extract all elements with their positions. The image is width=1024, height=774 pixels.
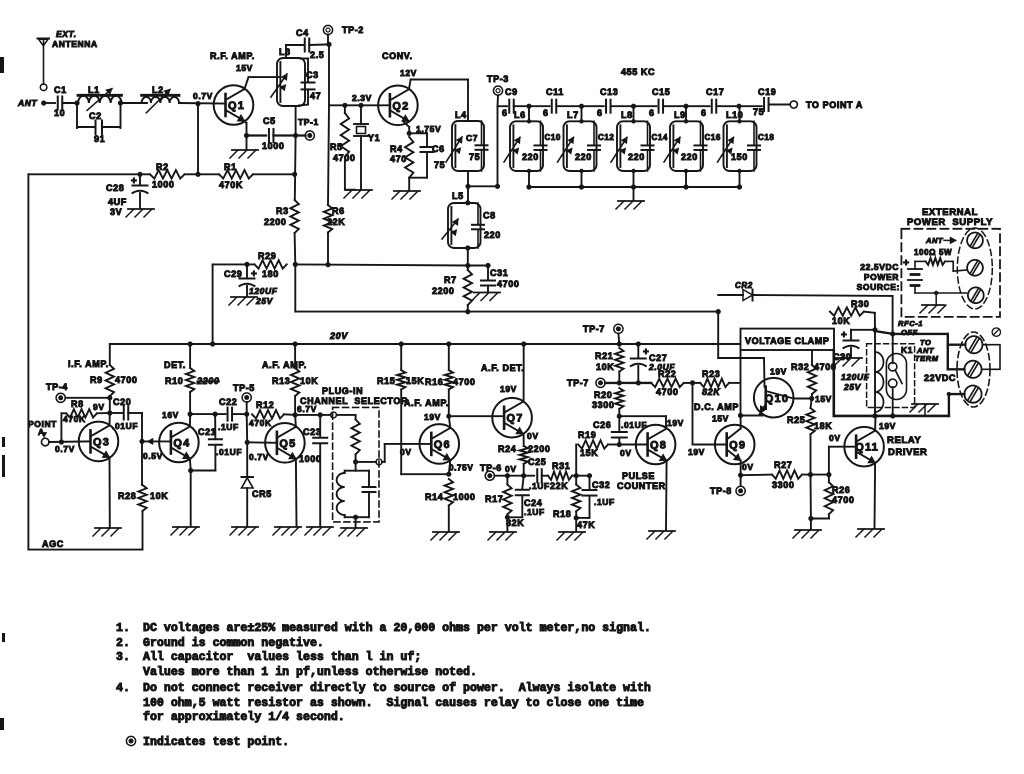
- svg-text:10K: 10K: [300, 376, 318, 386]
- svg-text:15V: 15V: [712, 414, 729, 424]
- svg-text:K1: K1: [901, 345, 913, 355]
- terminal - (supply): [968, 287, 984, 303]
- resistor R6: [328, 105, 329, 205]
- svg-text:470K: 470K: [63, 414, 86, 424]
- tank L5 / capacitor C8: [448, 203, 481, 248]
- svg-text:10K: 10K: [596, 362, 614, 372]
- test point TP-5: [242, 393, 251, 402]
- svg-text:R20: R20: [594, 390, 612, 400]
- test point legend: [126, 736, 135, 745]
- resistor R10: [189, 344, 191, 368]
- resistor R25: [811, 399, 812, 409]
- svg-text:Do not connect receiver direct: Do not connect receiver directly to sour…: [143, 682, 651, 695]
- svg-text:Q7: Q7: [507, 413, 524, 425]
- capacitor C26: [618, 416, 620, 430]
- svg-text:19V: 19V: [500, 384, 517, 394]
- ground CR5: [232, 526, 258, 528]
- capacitor C17: [711, 100, 713, 113]
- svg-text:.1UF: .1UF: [594, 497, 615, 507]
- capacitor C13: [605, 100, 607, 113]
- capacitor C24: [522, 476, 523, 489]
- svg-text:.1UF: .1UF: [529, 481, 550, 491]
- node Q8 base: [617, 442, 622, 447]
- wire node down to R2 rail: [197, 104, 199, 175]
- node emitter/C5: [244, 133, 249, 138]
- tank L10 / capacitor C18: [724, 121, 757, 171]
- wire TP-2 down to Q2 base line: [327, 35, 329, 45]
- svg-text:TERM: TERM: [915, 354, 939, 363]
- resistor R15: [400, 344, 402, 370]
- capacitor C6 parallel R4: [409, 132, 427, 134]
- svg-text:R29: R29: [258, 251, 276, 261]
- svg-text:4700: 4700: [656, 387, 678, 397]
- svg-text:OFF: OFF: [901, 328, 918, 337]
- svg-text:R13: R13: [272, 376, 290, 386]
- node Y1 top: [358, 103, 363, 108]
- svg-text:.1UF: .1UF: [524, 507, 545, 517]
- resistor R8: [61, 412, 66, 414]
- node 9V: [107, 410, 112, 415]
- svg-text:0V: 0V: [505, 464, 517, 474]
- wire switch bottom down: [892, 387, 894, 416]
- node L6 top: [526, 104, 531, 109]
- svg-text:2200: 2200: [528, 444, 550, 454]
- node R25 bottom: [808, 472, 813, 477]
- node Q6 collector 19V: [446, 414, 451, 419]
- svg-text:22K: 22K: [327, 217, 345, 227]
- svg-text:CR5: CR5: [252, 489, 272, 499]
- svg-text:L7: L7: [567, 110, 579, 120]
- capacitor C22: [227, 408, 229, 421]
- svg-text:120UF: 120UF: [249, 286, 278, 296]
- svg-text:Q9: Q9: [729, 440, 746, 452]
- svg-text:1.: 1.: [116, 622, 130, 635]
- svg-text:220: 220: [575, 152, 592, 162]
- inductor L1: [78, 96, 122, 103]
- test point TP-6: [485, 471, 494, 480]
- node L4/L5/IF: [465, 184, 470, 189]
- selector resistor: [337, 414, 356, 416]
- svg-text:R22: R22: [658, 369, 676, 379]
- svg-text:22K: 22K: [550, 481, 568, 491]
- svg-text:3300: 3300: [772, 480, 794, 490]
- svg-text:TP-7: TP-7: [583, 324, 605, 334]
- svg-text:0V: 0V: [527, 431, 539, 441]
- node R6 bottom: [325, 262, 330, 267]
- svg-text:470K: 470K: [219, 180, 243, 190]
- transistor Q9: [715, 425, 755, 465]
- svg-text:TP-3: TP-3: [487, 74, 509, 84]
- ground Q11: [858, 528, 884, 530]
- wire R1 to R3 column: [253, 173, 295, 175]
- wire feed line y265: [295, 264, 468, 265]
- svg-text:R32: R32: [791, 362, 809, 372]
- node external ground: [934, 291, 938, 295]
- svg-text:0.5V: 0.5V: [143, 451, 163, 461]
- svg-text:Q1: Q1: [228, 100, 245, 112]
- svg-text:L4: L4: [455, 110, 467, 120]
- svg-text:220: 220: [522, 152, 539, 162]
- svg-text:L10: L10: [726, 110, 743, 120]
- 20V rail: [110, 343, 741, 345]
- svg-text:C22: C22: [219, 397, 237, 407]
- svg-text:ANT: ANT: [17, 98, 37, 108]
- svg-text:R28: R28: [118, 491, 136, 501]
- wire to IF strip input: [468, 185, 498, 187]
- wire terminal1-terminal2 link: [947, 345, 949, 370]
- svg-text:C11: C11: [546, 87, 564, 97]
- resistor R18: [575, 476, 577, 485]
- node rail C27: [636, 341, 641, 346]
- wire Q9 emitter: [740, 461, 742, 476]
- selector tank coil: [355, 462, 357, 471]
- svg-text:22VDC: 22VDC: [924, 373, 956, 383]
- capacitor C11: [551, 100, 553, 113]
- svg-text:3.: 3.: [116, 651, 130, 664]
- ground Q1: [232, 149, 258, 151]
- ground selector: [341, 527, 367, 529]
- wire Q6 emitter: [449, 460, 451, 474]
- node L5/R7: [465, 263, 470, 268]
- transistor Q10: [754, 378, 794, 418]
- ground relay bus: [912, 403, 938, 405]
- diode CR2: [718, 294, 743, 296]
- svg-text:Q11: Q11: [855, 442, 879, 454]
- wire battery minus: [915, 292, 967, 294]
- svg-text:19V: 19V: [879, 421, 896, 431]
- svg-text:R10: R10: [165, 376, 183, 386]
- node 16V: [188, 412, 193, 417]
- transistor Q3: [79, 422, 119, 462]
- ground Q8: [649, 530, 675, 532]
- capacitor C32: [589, 476, 591, 489]
- svg-text:RELAY: RELAY: [887, 435, 921, 446]
- node L1 left: [74, 100, 79, 105]
- test point TP-7 upper: [614, 324, 623, 333]
- svg-text:DET.: DET.: [164, 360, 186, 370]
- svg-text:3300: 3300: [592, 400, 614, 410]
- svg-text:2.5: 2.5: [310, 50, 324, 60]
- capacitor C5: [268, 129, 270, 142]
- node coil bottom: [872, 413, 877, 418]
- wire Q10 emitter to Q9 collector: [741, 415, 763, 417]
- svg-text:POWER: POWER: [864, 272, 899, 282]
- node rail R21: [617, 341, 622, 346]
- node R21 bottom: [617, 380, 622, 385]
- node L3 bottom: [293, 133, 298, 138]
- svg-text:AGC: AGC: [42, 539, 64, 549]
- svg-text:R2: R2: [156, 162, 169, 172]
- node C27 bottom: [636, 380, 641, 385]
- svg-text:220: 220: [681, 152, 698, 162]
- ground R17/C24: [490, 531, 516, 533]
- transistor Q11: [844, 427, 884, 467]
- svg-text:20V: 20V: [329, 331, 348, 341]
- wire Q3 emitter to ground: [109, 457, 111, 527]
- transistor Q5: [265, 423, 305, 463]
- svg-text:A.F. AMP.: A.F. AMP.: [262, 360, 307, 370]
- ground Q6/R14: [433, 531, 459, 533]
- wire C5 to TP-1: [273, 134, 305, 136]
- resistor R28: [141, 441, 143, 485]
- ground Q4: [173, 526, 199, 528]
- svg-text:C10: C10: [545, 133, 561, 142]
- svg-text:R6: R6: [332, 206, 345, 216]
- svg-text:R31: R31: [552, 461, 570, 471]
- test point TP-8: [740, 475, 742, 486]
- svg-text:455 KC: 455 KC: [621, 67, 655, 77]
- capacitor C30: [851, 329, 875, 331]
- wire Q10 collector to R32 column: [793, 398, 811, 400]
- svg-text:CR2: CR2: [735, 281, 753, 290]
- screw symbol: [992, 328, 1000, 336]
- voltage clamp box: [741, 329, 835, 350]
- svg-text:15K: 15K: [406, 376, 424, 386]
- node Q5 base: [245, 440, 250, 445]
- transistor Q8: [636, 425, 676, 465]
- ground C30: [836, 357, 862, 359]
- ground C28: [128, 208, 154, 210]
- svg-text:0.7V: 0.7V: [55, 444, 75, 454]
- wire R18 bottom to ground: [575, 518, 577, 531]
- svg-text:C7: C7: [466, 133, 478, 143]
- svg-text:C25: C25: [528, 457, 546, 467]
- node C32 top: [587, 473, 592, 478]
- svg-text:1000: 1000: [262, 141, 284, 151]
- tank L9 / capacitor C16: [670, 121, 703, 171]
- wire CR2 right down to relay node: [892, 296, 894, 334]
- resistor R29: [213, 263, 255, 265]
- svg-text:9V: 9V: [93, 402, 105, 412]
- capacitor C9: [508, 100, 510, 113]
- terminal POINT A: [41, 438, 49, 446]
- svg-text:120UF: 120UF: [841, 372, 870, 382]
- wire Q6 collector: [449, 416, 451, 428]
- wire Q11 collector 19V: [874, 416, 876, 431]
- resistor R3: [294, 136, 297, 201]
- wire to C5: [247, 134, 267, 136]
- svg-text:15V: 15V: [815, 394, 832, 404]
- svg-text:4700: 4700: [115, 375, 137, 385]
- transistor Q4: [159, 423, 199, 463]
- svg-text:R18: R18: [553, 509, 571, 519]
- svg-text:0.7V: 0.7V: [193, 91, 213, 101]
- resistor R19: [578, 440, 608, 448]
- wire Q1 collector to L3: [245, 77, 249, 89]
- resistor R22: [651, 379, 684, 387]
- wire R15 bottom to emitter node: [401, 473, 449, 475]
- svg-text:L5: L5: [452, 191, 464, 201]
- node 15V R32: [809, 396, 814, 401]
- svg-text:C12: C12: [598, 133, 614, 142]
- ground Q2/R4: [394, 190, 420, 192]
- svg-text:R5: R5: [330, 142, 343, 152]
- relay K1 box: [867, 344, 915, 408]
- svg-text:L6: L6: [514, 110, 526, 120]
- svg-text:2.: 2.: [116, 637, 130, 650]
- svg-text:75: 75: [753, 107, 764, 117]
- resistor R9: [109, 344, 111, 365]
- node C20/R28: [139, 439, 144, 444]
- wire Q9 base riser: [692, 383, 694, 445]
- resistor R32: [811, 350, 813, 365]
- wire C1 to L1: [63, 102, 78, 104]
- series resistor 100 ohm: [926, 258, 945, 265]
- svg-text:TP-2: TP-2: [342, 25, 364, 35]
- wire Q10 base from B+: [717, 312, 719, 358]
- svg-text:for approximately 1/4 second.: for approximately 1/4 second.: [143, 711, 345, 724]
- svg-text:C20: C20: [113, 397, 131, 407]
- svg-text:0.7V: 0.7V: [249, 452, 269, 462]
- svg-text:R17: R17: [485, 494, 503, 504]
- node R17 top: [505, 473, 510, 478]
- svg-text:Q2: Q2: [392, 100, 409, 112]
- svg-text:POWER SUPPLY: POWER SUPPLY: [907, 217, 993, 228]
- node R22/R23/Q9-base: [690, 380, 695, 385]
- svg-text:47: 47: [310, 91, 321, 101]
- wire R8 left to POINT A wire: [60, 413, 62, 442]
- ground R25/R26: [795, 529, 821, 531]
- node R29 right: [293, 262, 298, 267]
- antenna (EXT): [38, 38, 50, 40]
- svg-text:TP-4: TP-4: [46, 382, 68, 392]
- wire Q10 emitter to node: [760, 415, 763, 416]
- svg-text:.01UF: .01UF: [112, 421, 138, 431]
- resistor R5: [344, 105, 346, 113]
- capacitor C15: [658, 100, 660, 113]
- jumper terminal1 to terminal2: [982, 345, 1000, 370]
- capacitor C21: [214, 414, 216, 438]
- test point TP-4: [56, 393, 65, 402]
- capacitor C23: [319, 415, 321, 437]
- svg-text:Q6: Q6: [434, 439, 451, 451]
- node C4/TP-2: [326, 42, 331, 47]
- AGC column: [27, 174, 29, 549]
- tank L4 / capacitor C7: [452, 121, 484, 171]
- test point TP-2: [323, 25, 332, 34]
- svg-text:2200: 2200: [196, 376, 219, 386]
- node R5 top: [342, 103, 347, 108]
- svg-text:TP-5: TP-5: [233, 383, 255, 393]
- transistor Q7: [492, 398, 532, 438]
- svg-text:47K: 47K: [577, 520, 595, 530]
- tank L3: [277, 58, 305, 106]
- node 0.75V: [446, 472, 451, 477]
- svg-text:470K: 470K: [249, 418, 272, 428]
- svg-text:Indicates test point.: Indicates test point.: [143, 736, 289, 749]
- resistor R12: [252, 410, 284, 418]
- node B+ junction: [716, 309, 721, 314]
- svg-text:1000: 1000: [299, 454, 321, 464]
- svg-text:6: 6: [502, 108, 508, 118]
- svg-text:ANTENNA: ANTENNA: [52, 39, 98, 49]
- node Q1 base / R2 branch: [195, 101, 200, 106]
- svg-text:R24: R24: [498, 444, 516, 454]
- svg-text:TP-1: TP-1: [298, 117, 319, 127]
- svg-text:82K: 82K: [702, 387, 721, 397]
- wire Q5 collector: [294, 415, 297, 427]
- svg-text:C31: C31: [490, 268, 508, 278]
- wire Q9 collector: [740, 416, 742, 429]
- capacitor C1: [57, 97, 59, 110]
- wire Q5 emitter to ground: [295, 459, 298, 526]
- node L10 top: [736, 104, 741, 109]
- node C22/R12/CR5: [244, 412, 249, 417]
- resistor R4: [405, 137, 413, 178]
- resistor R27: [741, 474, 772, 477]
- wire R17 bottom to ground: [506, 517, 508, 531]
- svg-text:L8: L8: [621, 110, 633, 120]
- scan mark top-left: [0, 57, 4, 73]
- svg-text:19V: 19V: [688, 447, 705, 457]
- wire R30 to junction: [874, 313, 876, 330]
- svg-text:75: 75: [434, 160, 445, 170]
- svg-text:R27: R27: [774, 460, 792, 470]
- svg-text:C1: C1: [54, 85, 67, 95]
- wire R20 node to Q8 collector: [619, 415, 666, 417]
- ground C31: [474, 292, 500, 294]
- svg-text:470: 470: [390, 154, 407, 164]
- relay K1 switch: [886, 354, 906, 400]
- wire L2 to Q1 base: [179, 102, 226, 105]
- ground external: [922, 304, 944, 306]
- svg-text:6: 6: [543, 108, 549, 118]
- svg-text:15K: 15K: [580, 448, 598, 458]
- wire L4 bottom to L5: [467, 171, 469, 203]
- wire 16V node to C22: [190, 413, 225, 415]
- svg-text:100Ω 5W: 100Ω 5W: [914, 248, 952, 257]
- svg-text:+: +: [841, 330, 847, 341]
- dashed oval supply terminals: [957, 228, 992, 309]
- resistor R31: [548, 472, 572, 480]
- svg-text:16V: 16V: [162, 410, 179, 420]
- capacitor C19: [763, 98, 765, 111]
- svg-text:25V: 25V: [843, 382, 862, 392]
- connector pin 1: [331, 412, 337, 418]
- resistor R7: [467, 266, 469, 271]
- svg-text:R26: R26: [832, 485, 850, 495]
- svg-text:C26: C26: [593, 420, 611, 430]
- node switch bottom: [890, 413, 895, 418]
- svg-text:DC voltages are±25% measured w: DC voltages are±25% measured with a 20,0…: [143, 622, 651, 635]
- svg-text:Ground is common negative.: Ground is common negative.: [143, 637, 324, 650]
- resistor R26: [828, 475, 830, 483]
- node 6.7V: [293, 412, 298, 417]
- svg-text:C19: C19: [758, 87, 776, 97]
- ground IF strip: [633, 187, 635, 200]
- svg-text:R23: R23: [702, 369, 720, 379]
- svg-text:Y1: Y1: [368, 133, 380, 143]
- svg-text:I.F. AMP.: I.F. AMP.: [68, 359, 109, 369]
- svg-text:L2: L2: [152, 85, 164, 95]
- svg-text:0V: 0V: [620, 448, 632, 458]
- wire L5 bottom to feed line: [467, 248, 469, 266]
- capacitor C27: [637, 344, 639, 357]
- svg-text:2200: 2200: [264, 217, 286, 227]
- svg-text:10K: 10K: [832, 316, 850, 326]
- node R26 top: [826, 472, 831, 477]
- svg-text:R16: R16: [425, 377, 443, 387]
- tank L6 / capacitor C10: [510, 121, 543, 171]
- svg-text:91: 91: [94, 134, 105, 144]
- resistor R1: [198, 173, 219, 175]
- transistor Q2: [378, 86, 418, 126]
- IF coupling line: [498, 105, 508, 107]
- TP-7 bus wire: [605, 382, 651, 384]
- wire R3 to R29 node: [294, 233, 297, 264]
- svg-text:6: 6: [701, 108, 707, 118]
- resistor R17: [506, 476, 508, 485]
